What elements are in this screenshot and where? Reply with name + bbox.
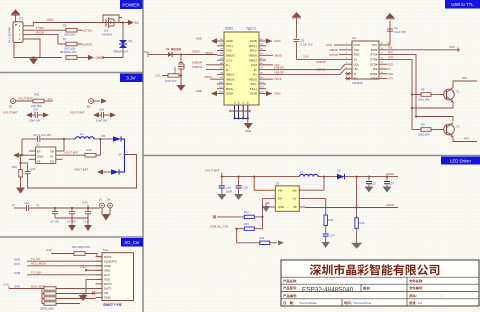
svg-text:C18: C18: [226, 186, 231, 190]
svg-text:C24: C24: [24, 201, 29, 205]
svg-text:DTR#: DTR#: [370, 58, 378, 62]
wire shield cross tick: [230, 110, 250, 113]
wire MCU_MISO IO41: [14, 284, 102, 288]
capacitor C17: [22, 133, 64, 142]
svg-text:TF_CS: TF_CS: [31, 257, 40, 261]
svg-text:DTR: DTR: [388, 56, 393, 59]
svg-text:USB1: USB1: [225, 27, 234, 31]
svg-text:0.1uF 25V: 0.1uF 25V: [394, 30, 406, 34]
wire VIN: [44, 97, 53, 101]
resistor R14: [260, 236, 270, 245]
svg-text:GND: GND: [196, 37, 202, 41]
resistor R8: [60, 50, 77, 60]
svg-text:VBUS: VBUS: [204, 75, 212, 79]
section divider 3.3V bottom: [0, 236, 143, 238]
svg-text:3.3V: 3.3V: [303, 55, 309, 59]
svg-text:DSR#: DSR#: [370, 72, 378, 76]
svg-text:22R ±5%: 22R ±5%: [31, 104, 42, 108]
net label ch340 right 7: [386, 73, 393, 76]
wire VSS to ground: [86, 279, 102, 294]
svg-text:*CurrentTime: *CurrentTime: [353, 301, 372, 305]
svg-text:U0TXD: U0TXD: [82, 29, 93, 33]
net label 5V in: [144, 50, 152, 57]
svg-text:GND: GND: [274, 92, 280, 96]
power port VDD arrow: [11, 9, 20, 22]
svg-text:R10 10KΩ ±5%: R10 10KΩ ±5%: [72, 245, 91, 249]
svg-text:AO3401: AO3401: [102, 33, 113, 37]
svg-text:VBUS: VBUS: [249, 54, 257, 58]
svg-text:R20: R20: [34, 93, 40, 97]
svg-text:FB: FB: [293, 205, 297, 209]
capacitor C20: [323, 226, 335, 243]
svg-text:IO0: IO0: [462, 76, 467, 80]
wire USB-DP long: [266, 60, 345, 70]
svg-text:USB-DP: USB-DP: [316, 60, 326, 64]
port arrow VOUT_BAT to J4: [74, 167, 111, 174]
net label VOUT_BAT led: [205, 168, 222, 176]
title text product name: [283, 279, 297, 282]
capacitor C14 led: [384, 177, 394, 187]
port arrow B2: [94, 98, 108, 103]
net label VBUS right: [266, 53, 282, 57]
svg-text:SMBJ6.0CA: SMBJ6.0CA: [113, 50, 128, 54]
title text file number: [409, 286, 423, 289]
svg-text:RTS#: RTS#: [370, 53, 378, 57]
wire U0RXD: [77, 43, 93, 47]
power port 5V: [128, 20, 140, 25]
svg-text:T1: T1: [456, 90, 460, 94]
svg-text:VOUT BAT: VOUT BAT: [205, 168, 220, 172]
ground R12: [351, 243, 362, 249]
transistor T1: [444, 88, 460, 103]
port arrow R14: [270, 240, 284, 245]
net label USB-DN right typec: [274, 66, 284, 70]
svg-text:0.1uF 25V: 0.1uF 25V: [301, 42, 313, 46]
svg-text:IO41: IO41: [14, 285, 21, 289]
svg-text:U2: U2: [36, 143, 40, 147]
ground C20: [322, 242, 330, 248]
capacitor C15: [67, 207, 76, 224]
svg-text:U5: U5: [276, 181, 280, 185]
title text ESP32-4848S040: [302, 286, 354, 293]
svg-text:BS: BS: [37, 149, 41, 153]
svg-text:D+: D+: [226, 63, 230, 67]
ic U3 CH340C: [345, 36, 386, 85]
svg-text:S1: S1: [99, 198, 103, 202]
svg-text:VIN: VIN: [278, 188, 283, 192]
svg-text:3V3: 3V3: [388, 47, 393, 50]
resistor R12: [355, 218, 365, 229]
port arrow right 2: [110, 112, 116, 117]
svg-text:D+: D+: [253, 73, 257, 77]
svg-text:GND: GND: [250, 39, 258, 43]
svg-text:CTS: CTS: [388, 78, 393, 81]
resistor R5 cc1: [165, 74, 182, 83]
svg-text:C22: C22: [31, 167, 36, 171]
svg-text:VSS: VSS: [104, 278, 110, 282]
ground shield: [244, 118, 253, 132]
net label U0RXD ch340: [329, 48, 345, 52]
power port GND typec right bottom: [266, 91, 280, 96]
section divider POWER bottom: [0, 72, 143, 74]
svg-text:GND: GND: [37, 154, 43, 158]
svg-text:ESP32-4848S040: ESP32-4848S040: [302, 286, 354, 293]
capacitor C19: [96, 108, 110, 123]
svg-text:VDD: VDD: [104, 269, 111, 273]
net label VBUS left 2: [204, 75, 217, 79]
svg-text:RXD: RXD: [354, 53, 360, 57]
svg-text:R16: R16: [87, 148, 92, 152]
resistor R12b en: [217, 210, 263, 219]
wire T2 emitter RST: [453, 137, 477, 142]
wire D1 to ground rail: [102, 48, 123, 59]
wire T2 collector rail: [415, 115, 453, 121]
pad S4: [107, 198, 112, 208]
svg-text:USB-DN: USB-DN: [316, 68, 326, 72]
svg-text:C18: C18: [33, 108, 38, 112]
svg-text:3.3V: 3.3V: [449, 45, 455, 49]
svg-text:VBUS: VBUS: [274, 53, 282, 57]
svg-text:TXD: TXD: [354, 48, 360, 52]
svg-text:5V: 5V: [144, 50, 148, 54]
svg-text:C8: C8: [301, 38, 305, 42]
svg-text:V3: V3: [354, 58, 358, 62]
svg-text:VOUT BAT: VOUT BAT: [70, 111, 85, 115]
wire blue column J4: [121, 139, 125, 172]
resistor network RN1 d: [42, 299, 80, 306]
net label VBUS right 2: [266, 77, 282, 81]
wire OV to R11: [305, 199, 326, 215]
diode D2 led: [337, 169, 345, 180]
section bar USB to TTL: [445, 0, 480, 9]
svg-text:USB-DN: USB-DN: [192, 65, 202, 69]
wire 5V rail: [103, 22, 128, 24]
svg-text:VCC: VCC: [372, 43, 378, 47]
inductor L1 led: [254, 170, 337, 190]
wire R16 to node: [96, 138, 102, 155]
ground caps row a: [68, 218, 76, 231]
net label ch340 right 6: [386, 68, 391, 71]
ground C18 led: [217, 194, 226, 200]
wire to gnd cc1: [180, 76, 182, 86]
svg-text:S3: S3: [243, 102, 245, 104]
svg-text:C19: C19: [99, 108, 104, 112]
ground GND power section: [29, 56, 38, 64]
svg-text:B1: B1: [9, 105, 13, 109]
transistor Q2 AO3400: [174, 55, 184, 76]
svg-text:GND: GND: [196, 89, 202, 93]
svg-text:D-: D-: [226, 68, 229, 72]
svg-text:*CurrentDate: *CurrentDate: [299, 301, 317, 305]
svg-text:T2: T2: [456, 125, 460, 129]
svg-text:GND: GND: [245, 129, 251, 133]
capacitor C18: [29, 108, 43, 123]
svg-text:EN: EN: [278, 197, 282, 201]
port arrow VOUT_BAT left 2: [70, 111, 99, 118]
wire R10 to TF1: [85, 254, 102, 257]
title text file name: [409, 279, 423, 282]
svg-text:C13: C13: [371, 181, 376, 185]
svg-text:RTS: RTS: [388, 52, 393, 55]
wire USB-DN long: [266, 68, 345, 75]
wire LEDA: [345, 172, 399, 178]
power port GND typec right top: [266, 38, 280, 43]
wire R232 3.3V: [386, 45, 460, 52]
svg-text:U0RXD: U0RXD: [82, 43, 93, 47]
capacitor C24 series: [24, 201, 36, 211]
svg-text:RX2-: RX2-: [226, 82, 233, 86]
svg-text:RX1+: RX1+: [249, 44, 257, 48]
resistor R15: [12, 154, 22, 177]
svg-text:POWER: POWER: [122, 2, 140, 7]
svg-text:R11: R11: [329, 218, 334, 222]
wire VCC column: [386, 21, 390, 45]
title block frame: [281, 260, 479, 306]
title block column lines: [342, 277, 407, 306]
wire VDD net: [31, 18, 103, 26]
svg-text:F?: F?: [12, 203, 16, 207]
wire Q1 to D1: [122, 21, 124, 40]
wire IN row VOUT_BAT: [63, 150, 85, 155]
svg-text:RX1-: RX1-: [250, 49, 257, 53]
wire J4 center tap: [28, 152, 137, 188]
ground C19 led: [234, 194, 243, 200]
ground TF1 vss: [79, 294, 88, 301]
svg-text:L1: L1: [80, 132, 84, 136]
wire VBUS to typec: [172, 50, 217, 56]
svg-text:SD_Car: SD_Car: [124, 240, 140, 245]
resistor R16: [85, 148, 96, 157]
resistor R11: [324, 215, 334, 226]
net label 3.3V sd: [46, 248, 74, 254]
power port GND typec left top: [196, 37, 217, 44]
pad S1: [99, 198, 104, 208]
wire RXD0: [31, 30, 62, 44]
svg-text:CC1: CC1: [226, 58, 232, 62]
capacitor C4: [387, 26, 406, 34]
wire TXD0: [31, 26, 62, 30]
wire T1 collector IO0: [453, 76, 477, 87]
capacitor C13: [366, 177, 376, 187]
svg-text:TX2-: TX2-: [250, 82, 257, 86]
wire led input rail: [221, 176, 256, 178]
capacitor C12: [83, 208, 91, 224]
svg-text:IO48: IO48: [14, 271, 21, 275]
svg-text:CTS#: CTS#: [370, 77, 378, 81]
diode D4: [152, 48, 181, 57]
svg-text:IO38_BL_CTR: IO38_BL_CTR: [210, 224, 228, 228]
svg-text:P1: P1: [19, 17, 23, 21]
svg-text:RI#: RI#: [373, 67, 378, 71]
wire caps common: [55, 217, 88, 219]
svg-text:GND: GND: [326, 43, 332, 47]
wire FB LEDK rail: [305, 203, 398, 209]
title text time: [344, 301, 371, 305]
title block row lines: [281, 277, 479, 299]
title text product model: [283, 286, 297, 289]
section bar SD_Car: [121, 238, 143, 247]
connector TF1: [96, 248, 134, 301]
ground C14: [383, 187, 392, 193]
diode J4 lower: [111, 153, 125, 175]
capacitor C14: [50, 207, 59, 224]
svg-text:10KΩ ±5%: 10KΩ ±5%: [418, 133, 430, 136]
svg-text:VBUS: VBUS: [226, 77, 234, 81]
svg-text:R232: R232: [371, 48, 378, 52]
diode D1 TVS: [113, 39, 133, 54]
svg-text:TX2+: TX2+: [250, 87, 258, 91]
wire ground rail right: [40, 57, 62, 59]
svg-text:3.3V: 3.3V: [46, 248, 52, 252]
wire R14 row: [236, 228, 260, 243]
svg-text:TXD0: TXD0: [36, 26, 44, 30]
ground below R15: [16, 188, 25, 194]
svg-text:R12: R12: [244, 210, 249, 214]
svg-text:XI: XI: [354, 72, 357, 76]
wire TF_CS IO42: [14, 257, 102, 261]
port arrow right 1: [43, 112, 49, 117]
svg-text:R14: R14: [260, 236, 265, 240]
inductor L1 boost: [64, 132, 101, 139]
connector P1: [9, 17, 32, 43]
svg-text:C17 0.1uF 25V: C17 0.1uF 25V: [33, 133, 51, 137]
svg-text:1uF 16V: 1uF 16V: [50, 221, 59, 224]
label RN1 value: [40, 307, 54, 311]
resistor R7: [62, 37, 77, 50]
net label 3.3V pullups: [3, 282, 42, 288]
svg-text:CC1: CC1: [155, 74, 161, 78]
title text version: [363, 287, 370, 290]
svg-text:L1: L1: [300, 170, 304, 174]
no-connect X XI: [346, 72, 349, 75]
svg-text:C4: C4: [394, 26, 398, 30]
svg-text:DSR: DSR: [388, 73, 393, 76]
svg-text:IN: IN: [50, 154, 53, 158]
svg-text:UD+: UD+: [354, 62, 360, 66]
ic U5 led driver: [270, 181, 305, 211]
label TF1 socket type: [103, 303, 121, 306]
svg-text:DAT0: DAT0: [104, 282, 112, 286]
wire pin4 to ground rail: [14, 39, 40, 58]
svg-text:S2: S2: [239, 102, 241, 104]
power port GND typec left bottom: [196, 89, 217, 96]
svg-text:CH340C: CH340C: [352, 81, 363, 85]
svg-text:10KΩ_±5%: 10KΩ_±5%: [40, 307, 54, 311]
svg-text:GND: GND: [274, 39, 280, 43]
svg-text:Type-C: Type-C: [246, 27, 257, 31]
regulator U2: [29, 143, 63, 164]
svg-text:3.3V: 3.3V: [82, 201, 88, 205]
wire 3.3V to CH340 V3: [297, 55, 346, 60]
wire 3v3 rail left: [12, 203, 26, 208]
svg-text:VBUS: VBUS: [192, 50, 200, 54]
svg-text:SBU2: SBU2: [249, 58, 257, 62]
svg-text:TF_CLK: TF_CLK: [31, 271, 42, 275]
svg-text:RST: RST: [464, 137, 470, 141]
svg-text:VBUS: VBUS: [226, 54, 234, 58]
ground C13: [365, 187, 374, 193]
ground U5: [262, 203, 270, 212]
svg-text:1KΩ ±5%: 1KΩ ±5%: [64, 33, 76, 37]
svg-text:R7: R7: [63, 37, 67, 41]
section bar LED Driver: [441, 157, 480, 165]
svg-text:C19: C19: [243, 186, 248, 190]
svg-text:F1: F1: [37, 204, 41, 208]
svg-text:VOUT BAT: VOUT BAT: [18, 97, 33, 101]
wire C17 left drop: [21, 139, 23, 156]
wire TF_CLK IO48: [14, 271, 102, 275]
net label CC2: [266, 63, 280, 67]
svg-text:VOUT BAT: VOUT BAT: [74, 167, 88, 171]
net label USB-DP left sub: [192, 60, 217, 65]
svg-text:GND: GND: [250, 92, 258, 96]
net label U0TXD ch340: [329, 53, 345, 57]
svg-text:RXD0: RXD0: [36, 30, 44, 34]
ground cc1: [177, 85, 186, 91]
section bar POWER: [120, 0, 143, 9]
svg-text:USB-DP: USB-DP: [192, 60, 202, 64]
resistor R10: [72, 245, 91, 255]
section divider USB-to-TTL bottom: [143, 155, 480, 157]
pad B1: [9, 99, 15, 109]
svg-text:10uF: 10uF: [226, 189, 232, 193]
svg-text:DAT2: DAT2: [104, 255, 112, 259]
power port 3.3V vcc: [386, 13, 395, 19]
wire VOUT_BAT B1: [16, 97, 34, 101]
svg-text:USB-DN: USB-DN: [274, 66, 284, 70]
svg-text:RX2+: RX2+: [226, 87, 234, 91]
svg-text:3.3V: 3.3V: [126, 76, 136, 81]
svg-text:C20: C20: [330, 234, 335, 238]
wire R12 bottom: [356, 228, 358, 243]
svg-text:FB: FB: [37, 160, 41, 164]
wire RTS column: [386, 52, 416, 117]
net label USB-DP right typec: [274, 70, 284, 74]
svg-text:D1: D1: [129, 39, 133, 43]
svg-text:DAT1: DAT1: [104, 287, 112, 291]
svg-text:U3: U3: [352, 36, 356, 40]
svg-text:MX-1.25-4PWT: MX-1.25-4PWT: [9, 26, 12, 43]
pad B2: [87, 99, 93, 109]
svg-text:3.3V: 3.3V: [3, 282, 9, 286]
title text paper: [409, 301, 422, 305]
connector USB1 Type-C: [217, 27, 266, 105]
svg-text:D-: D-: [254, 68, 257, 72]
svg-text:DCD#: DCD#: [370, 62, 378, 66]
resistor R6: [62, 24, 77, 37]
bottom shield pins: [234, 102, 250, 120]
svg-text:VIN: VIN: [48, 97, 53, 101]
svg-text:D2: D2: [337, 169, 341, 173]
net label VBUS left: [205, 51, 213, 55]
svg-text:TX1-: TX1-: [226, 49, 233, 53]
power port 5V usb: [292, 12, 301, 38]
capacitor C19 led: [236, 177, 248, 194]
svg-text:SW: SW: [292, 188, 297, 192]
svg-text:USB to TTL: USB to TTL: [451, 2, 474, 7]
wire rail F1: [36, 204, 100, 208]
svg-text:RI: RI: [388, 68, 391, 71]
svg-text:R6: R6: [63, 24, 67, 28]
svg-text:SW: SW: [50, 149, 55, 153]
svg-text:IO42: IO42: [14, 257, 21, 261]
svg-text:3.3V: 3.3V: [80, 265, 86, 269]
svg-text:B2: B2: [87, 105, 91, 109]
svg-text:10uF 16V: 10uF 16V: [96, 119, 108, 123]
title block company name: [310, 264, 439, 275]
resistor network RN1 c: [42, 294, 96, 301]
resistor network RN1 b: [42, 289, 96, 296]
